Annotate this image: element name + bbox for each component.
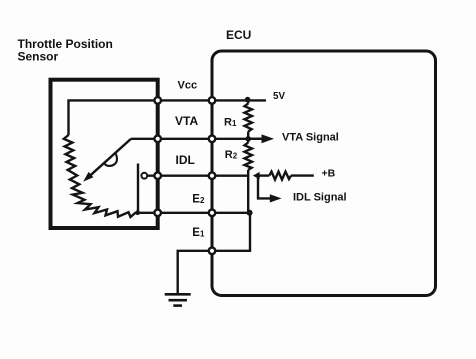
wiper arrowhead	[83, 172, 93, 182]
node IDL ECU pin	[209, 172, 216, 179]
node VTA ECU pin	[209, 136, 216, 143]
wire IDL	[147, 174, 248, 176]
wiper pivot hook	[105, 153, 118, 166]
junction dot E2/vertical	[247, 210, 253, 216]
wire +B to resistor	[259, 174, 270, 176]
IDL signal arrowhead	[270, 194, 282, 202]
junction dot VTA/R1/R2	[245, 136, 251, 142]
wire VTA (from arm bend to ECU arrow)	[131, 138, 263, 140]
wire IDL signal branch	[258, 176, 271, 199]
svg-text:E1: E1	[192, 227, 205, 239]
VTA signal arrow line	[248, 138, 262, 140]
ground	[165, 294, 191, 305]
svg-text:IDL: IDL	[176, 153, 195, 167]
svg-text:VTA: VTA	[175, 114, 198, 128]
node Vcc ECU pin	[209, 97, 216, 104]
ECU box	[212, 51, 436, 296]
svg-text:Vcc: Vcc	[178, 80, 198, 92]
svg-text:VTA Signal: VTA Signal	[282, 132, 339, 144]
svg-text:+B: +B	[322, 167, 336, 179]
junction dot +B/IDL-branch	[256, 173, 260, 177]
resistor R1	[245, 104, 253, 132]
junction dot switch-bar/E2	[135, 210, 140, 215]
node Vcc sensor pin	[154, 97, 161, 104]
svg-text:ECU: ECU	[226, 28, 251, 42]
resistor R2	[245, 143, 253, 170]
svg-text:R1: R1	[224, 116, 237, 128]
svg-text:Sensor: Sensor	[18, 49, 59, 63]
node E2 sensor pin	[154, 210, 161, 217]
VTA signal arrowhead	[262, 134, 275, 143]
svg-text:5V: 5V	[273, 91, 285, 102]
wire E1 with ground drop	[178, 213, 250, 294]
node E1 ECU pin	[209, 248, 216, 255]
node IDL sensor pin	[154, 172, 161, 179]
IDL switch bar	[137, 164, 139, 213]
wire 5V rail to R1	[247, 100, 249, 104]
node VTA sensor pin	[154, 136, 161, 143]
wire Vcc (5V rail from sensor pot top to 5V stub)	[69, 100, 267, 135]
resistor +B pullup	[269, 172, 291, 180]
svg-text:R2: R2	[225, 149, 238, 161]
throttle position sensor box	[51, 80, 158, 228]
IDL contact circle	[141, 173, 147, 179]
wire R1 to VTA node	[247, 132, 249, 143]
svg-text:E2: E2	[192, 193, 205, 205]
node E2 ECU pin	[209, 210, 216, 217]
+B arrowhead (pointing left)	[253, 172, 260, 179]
wire resistor to +B label	[291, 174, 314, 176]
label Throttle Position Sensor	[18, 37, 113, 63]
wire R2 down to E2 junction	[247, 170, 249, 213]
wire wiper arm	[87, 139, 132, 179]
svg-text:IDL Signal: IDL Signal	[293, 192, 347, 204]
wire E2	[137, 212, 250, 214]
resistor pot track (sensor potentiometer zigzag)	[64, 135, 138, 217]
junction dot 5V/R1	[245, 97, 251, 103]
